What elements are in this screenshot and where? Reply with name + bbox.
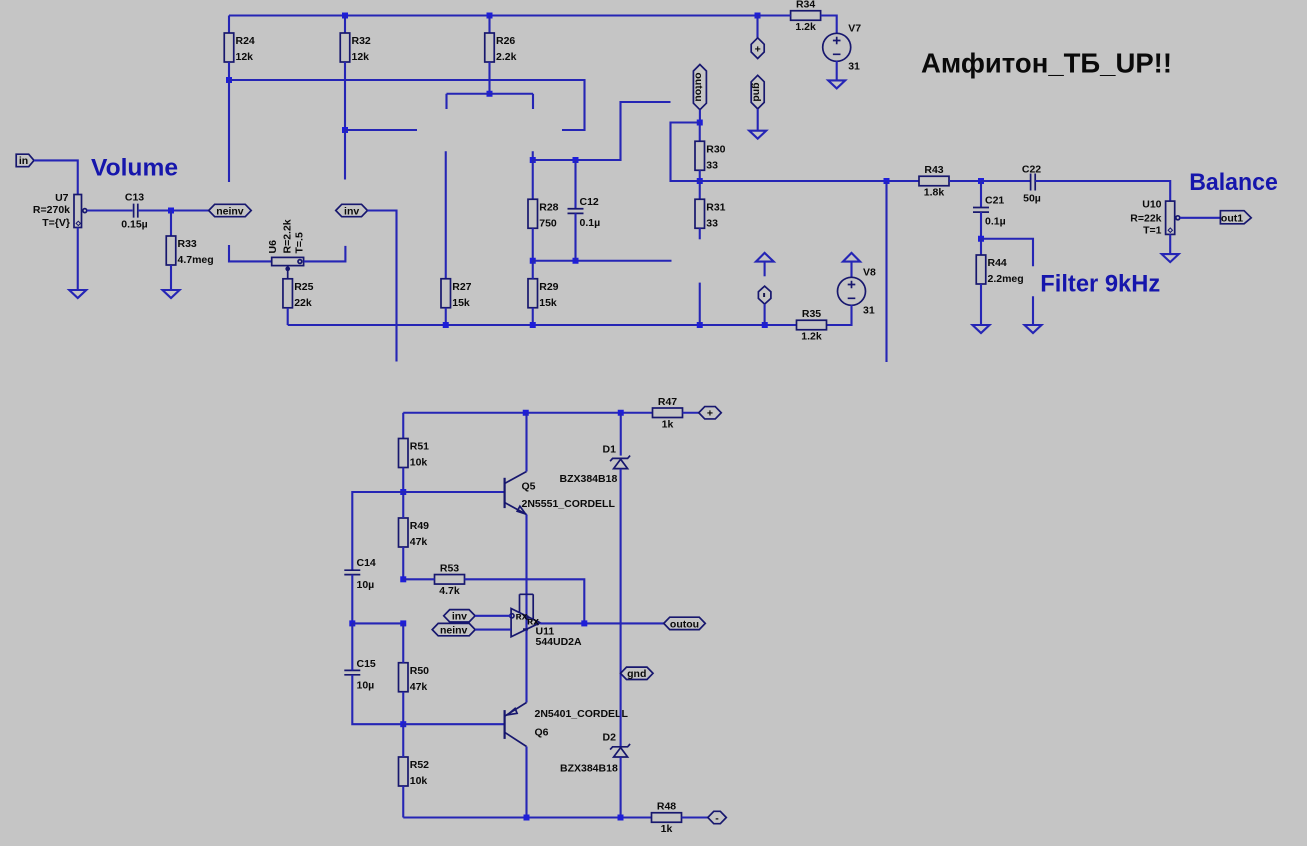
resistor R24: [224, 33, 234, 62]
svg-text:C12: C12: [580, 196, 599, 208]
resistor R32: [340, 33, 350, 62]
wire R32 node stub right: [345, 129, 417, 131]
junction top bus / R32: [342, 13, 348, 19]
junction top bus / R34: [755, 13, 761, 19]
capacitor C14: [344, 570, 360, 574]
svg-text:Filter 9kHz: Filter 9kHz: [1040, 271, 1160, 298]
resistor R51: [399, 439, 409, 468]
wire U6 left: [229, 245, 272, 261]
resistor R30: [695, 141, 705, 170]
ground under gnd flag: [749, 131, 766, 139]
svg-text:0.1µ: 0.1µ: [985, 216, 1006, 228]
wire U10 wiper to out1: [1180, 217, 1221, 219]
wire out bus: [671, 180, 920, 182]
svg-text:+: +: [755, 44, 761, 56]
junction Q6 collector / bus: [524, 815, 530, 821]
wire lower bottom bus: [403, 816, 651, 818]
wire R30 bypass: [671, 123, 700, 182]
svg-text:1.2k: 1.2k: [801, 331, 822, 343]
wire U10 bottom: [1169, 234, 1171, 254]
port out1: [1220, 211, 1251, 224]
wire base node to Q5: [403, 491, 503, 493]
svg-text:T=1: T=1: [1143, 225, 1162, 237]
wire R24 bottom to bus: [228, 62, 230, 80]
svg-text:R48: R48: [657, 801, 676, 813]
net flag - lower: [708, 811, 727, 823]
wire R24 collector stub: [228, 80, 230, 182]
wire bus to plus flag: [756, 16, 758, 38]
svg-text:U10: U10: [1142, 199, 1161, 211]
wire R49 bottom: [402, 547, 404, 579]
junction R28 top: [530, 157, 536, 163]
wire R53 left: [403, 578, 434, 580]
svg-text:Balance: Balance: [1189, 169, 1278, 196]
svg-text:15k: 15k: [452, 297, 470, 309]
wire in to U7: [34, 160, 78, 194]
wire R28 column stub: [532, 151, 534, 160]
wire V7 bottom: [836, 61, 838, 81]
svg-text:R52: R52: [410, 759, 429, 771]
wire bottom bus: [288, 324, 797, 326]
wire R26 top: [488, 16, 490, 34]
svg-text:2N5401_CORDELL: 2N5401_CORDELL: [535, 708, 629, 720]
net label inv lower: [444, 610, 475, 622]
wire U7 wiper to C13: [87, 209, 133, 211]
svg-text:Q5: Q5: [522, 481, 536, 493]
svg-text:22k: 22k: [294, 297, 312, 309]
svg-text:10µ: 10µ: [357, 680, 375, 692]
net flag arrow left: [756, 253, 774, 262]
svg-text:ʀx: ʀx: [516, 610, 528, 622]
resistor R26: [485, 33, 495, 62]
junction R30 bottom: [697, 178, 703, 184]
svg-text:1.2k: 1.2k: [795, 21, 816, 33]
resistor R48: [652, 813, 682, 823]
wire D2 bottom: [620, 757, 622, 817]
wire tap row: [352, 622, 403, 624]
junction neinv node: [168, 208, 174, 214]
svg-text:inv: inv: [344, 205, 359, 217]
svg-text:R34: R34: [796, 0, 815, 11]
wire R32 dangling: [344, 130, 346, 180]
wire C21 bottom: [980, 212, 982, 239]
wire R24 top: [228, 16, 230, 34]
svg-text:R32: R32: [352, 35, 371, 47]
capacitor C15: [344, 670, 360, 674]
potentiometer U10: [1166, 201, 1175, 234]
svg-text:R25: R25: [294, 281, 313, 293]
net flag + lower: [699, 407, 722, 419]
potentiometer U6: [272, 257, 304, 265]
wire Q5 collector: [525, 413, 527, 472]
svg-text:C21: C21: [985, 195, 1004, 207]
junction outou node: [697, 120, 703, 126]
junction Q6 base node: [400, 721, 406, 727]
wire R50 bottom: [402, 692, 404, 724]
svg-text:R27: R27: [452, 281, 471, 293]
resistor R52: [399, 757, 409, 786]
wire R48 to minus: [682, 816, 708, 818]
svg-text:4.7meg: 4.7meg: [178, 254, 214, 266]
wire C13 to node neinv: [138, 209, 209, 211]
wire R25 bottom: [287, 308, 289, 325]
svg-text:R=22k: R=22k: [1130, 213, 1161, 225]
svg-text:Q6: Q6: [535, 727, 549, 739]
transistor Q5: [504, 478, 506, 508]
svg-text:C13: C13: [125, 192, 144, 204]
resistor R27: [441, 279, 451, 308]
ground filter branch: [1025, 325, 1042, 333]
wire R27 bottom: [445, 308, 447, 325]
svg-text:31: 31: [863, 304, 875, 316]
svg-text:R=270k: R=270k: [33, 204, 70, 216]
wire C15 top: [351, 623, 353, 670]
wire filter branch lower: [1032, 296, 1034, 325]
junction tail / bus: [697, 322, 703, 328]
svg-text:2.2k: 2.2k: [496, 51, 517, 63]
wire opamp output: [540, 622, 664, 624]
svg-text:R43: R43: [924, 164, 943, 176]
junction R26 node: [487, 91, 493, 97]
svg-text:R50: R50: [410, 665, 429, 677]
wire staple left: [447, 93, 490, 95]
wire C21 top: [980, 181, 982, 208]
svg-text:10µ: 10µ: [357, 579, 375, 591]
junction top bus / R26: [487, 13, 493, 19]
junction R32 node: [342, 127, 348, 133]
svg-text:R35: R35: [802, 308, 821, 320]
wire neinv to opamp: [475, 629, 511, 631]
ground V7: [828, 80, 845, 88]
wire U7 bottom: [77, 228, 79, 291]
svg-text:R49: R49: [410, 520, 429, 532]
svg-text:outou: outou: [693, 73, 705, 102]
wire C12 bottom: [574, 213, 576, 260]
junction C12 bottom: [573, 258, 579, 264]
junction R29 / bus: [530, 322, 536, 328]
junction R53 node: [400, 576, 406, 582]
wire R33 top: [170, 211, 172, 237]
svg-text:-: -: [715, 812, 719, 824]
wire mid bus: [229, 80, 585, 130]
wire R49 top: [402, 492, 404, 518]
svg-text:750: 750: [539, 217, 557, 229]
capacitor C13: [134, 204, 138, 218]
svg-text:50µ: 50µ: [1023, 193, 1041, 205]
net label neinv lower: [432, 623, 475, 635]
op-amp U11: [511, 609, 540, 637]
wire R29 bottom: [532, 308, 534, 325]
resistor R31: [695, 199, 705, 228]
svg-text:out1: out1: [1221, 213, 1243, 225]
wire C15 bottom: [352, 675, 403, 724]
junction base node Q5: [400, 489, 406, 495]
svg-text:47k: 47k: [410, 536, 428, 548]
wire V8 bottom: [827, 305, 852, 325]
svg-text:D2: D2: [603, 732, 617, 744]
wire dangling below R43 node: [885, 181, 887, 362]
resistor R28: [528, 199, 538, 228]
resistor R25: [283, 279, 293, 308]
wire node row 260: [533, 260, 672, 262]
wire R33 bottom: [170, 265, 172, 290]
potentiometer U7: [74, 195, 82, 228]
svg-text:2.2meg: 2.2meg: [988, 273, 1024, 285]
ground U10: [1162, 254, 1179, 262]
net flag outou top: [693, 65, 706, 110]
wire U6 right: [304, 246, 346, 262]
svg-text:U6: U6: [267, 240, 279, 254]
svg-text:R51: R51: [410, 441, 429, 453]
resistor R47: [653, 408, 683, 418]
resistor R53: [435, 575, 465, 585]
svg-text:544UD2A: 544UD2A: [536, 636, 583, 648]
junction C12 top: [573, 157, 579, 163]
ground R33: [163, 290, 180, 298]
svg-text:neinv: neinv: [216, 205, 244, 217]
resistor R49: [399, 518, 409, 547]
wire outou to node: [699, 110, 701, 123]
diode D1: [610, 456, 630, 462]
wire R29 top: [532, 261, 534, 279]
resistor R50: [399, 663, 409, 692]
svg-text:1k: 1k: [661, 823, 673, 835]
wire R28 top: [532, 160, 534, 199]
wire R44 top: [980, 239, 982, 255]
svg-text:R28: R28: [539, 201, 558, 213]
wire lower top bus: [403, 412, 652, 414]
svg-text:2N5551_CORDELL: 2N5551_CORDELL: [522, 498, 616, 510]
wire staple right drop: [532, 94, 534, 109]
wire R44 bottom: [980, 284, 982, 325]
svg-text:inv: inv: [452, 611, 467, 623]
net label neinv: [209, 204, 252, 216]
port in: [16, 154, 34, 167]
junction tap / R50: [400, 620, 406, 626]
svg-text:1.8k: 1.8k: [924, 187, 945, 199]
svg-text:in: in: [19, 155, 28, 167]
junction C14/C15 tap: [349, 620, 355, 626]
wire C22 right: [1035, 181, 1170, 201]
svg-text:Амфитон_ТБ_UP!!: Амфитон_ТБ_UP!!: [921, 48, 1172, 79]
svg-text:4.7k: 4.7k: [439, 585, 460, 597]
svg-text:47k: 47k: [410, 681, 428, 693]
junction R24 / mid bus: [226, 77, 232, 83]
svg-text:T={V}: T={V}: [42, 217, 70, 229]
junction R43 node: [884, 178, 890, 184]
wire staple left drop: [445, 94, 447, 109]
svg-text:V8: V8: [863, 266, 876, 278]
wire C12 top: [574, 160, 576, 209]
svg-text:D1: D1: [603, 444, 617, 456]
svg-text:R44: R44: [988, 257, 1007, 269]
capacitor C21: [973, 208, 989, 213]
wire C14 bottom: [351, 575, 353, 624]
wire R31 top: [699, 181, 701, 199]
svg-text:12k: 12k: [352, 51, 370, 63]
svg-text:neinv: neinv: [440, 625, 468, 637]
transistor Q6: [504, 710, 506, 739]
net label inv: [336, 204, 368, 216]
svg-text:1k: 1k: [662, 418, 674, 430]
resistor R33: [166, 236, 176, 265]
wire node row 160: [533, 102, 671, 160]
wire R31 dangling: [699, 228, 701, 239]
svg-text:outou: outou: [670, 618, 699, 630]
wire dot flag to bus: [764, 304, 766, 325]
svg-text:R33: R33: [178, 238, 197, 250]
svg-text:U7: U7: [55, 192, 69, 204]
wire inv net: [368, 211, 397, 362]
wire R43 to C21 node: [949, 180, 981, 182]
capacitor C22: [1031, 174, 1036, 191]
net label outou lower: [664, 617, 706, 629]
diode D2: [610, 744, 630, 750]
wire R32 top: [344, 16, 346, 34]
svg-text:33: 33: [706, 159, 718, 171]
net flag dot: [758, 286, 771, 304]
svg-text:+: +: [707, 408, 713, 420]
ground U7: [69, 290, 86, 298]
wire R28 bottom: [532, 228, 534, 261]
svg-text:T=.5: T=.5: [294, 232, 306, 253]
wire D1 top: [620, 413, 622, 456]
net label gnd lower: [621, 667, 654, 679]
svg-text:BZX384B18: BZX384B18: [560, 763, 618, 775]
junction C21 bottom: [978, 236, 984, 242]
wire R34 to V7: [821, 16, 837, 34]
resistor R34: [791, 11, 821, 21]
svg-text:15k: 15k: [539, 297, 557, 309]
svg-text:R30: R30: [706, 143, 725, 155]
svg-text:R29: R29: [539, 281, 558, 293]
wire R30 bottom: [699, 170, 701, 181]
svg-text:0.1µ: 0.1µ: [580, 217, 601, 229]
svg-text:12k: 12k: [236, 51, 254, 63]
wire gnd flag to ground: [757, 109, 759, 131]
svg-text:R53: R53: [440, 562, 459, 574]
voltage source V8: [838, 277, 866, 305]
svg-text:gnd: gnd: [627, 668, 646, 680]
ground R44: [973, 325, 990, 333]
junction D2 / bus: [618, 815, 624, 821]
net flag +: [751, 38, 764, 59]
wire R27 column: [445, 151, 447, 279]
svg-text:R26: R26: [496, 35, 515, 47]
net flag arrow V8: [843, 253, 860, 262]
wire R51 bottom: [402, 468, 404, 493]
wire C22 left: [981, 180, 1031, 182]
svg-text:C15: C15: [357, 658, 376, 670]
capacitor C12: [568, 209, 584, 214]
resistor R43: [919, 176, 949, 186]
junction R27 / bus: [443, 322, 449, 328]
svg-text:V7: V7: [848, 22, 861, 34]
junction D1 top: [618, 410, 624, 416]
svg-text:Volume: Volume: [91, 155, 178, 182]
wire R50 top: [402, 623, 404, 662]
wire staple right: [490, 93, 534, 95]
junction output / R53: [581, 620, 587, 626]
wire R30 top: [699, 123, 701, 142]
wire filter branch: [981, 239, 1033, 267]
junction C21 top: [978, 178, 984, 184]
wire R52 bottom: [402, 786, 404, 818]
svg-text:C22: C22: [1022, 164, 1041, 176]
svg-text:33: 33: [706, 217, 718, 229]
wire R47 to plus: [683, 412, 699, 414]
resistor R29: [528, 279, 538, 308]
wire base node to C14: [352, 492, 403, 570]
wire Q5 emitter rail: [525, 515, 527, 703]
wire R53 right: [465, 579, 585, 623]
svg-text:R24: R24: [236, 35, 255, 47]
svg-text:0.15µ: 0.15µ: [121, 219, 148, 231]
junction flag / bus: [762, 322, 768, 328]
voltage source V7: [823, 33, 851, 61]
wire Q6 base: [403, 723, 503, 725]
net flag gnd top: [751, 75, 764, 109]
wire D1 to D2: [620, 469, 622, 746]
svg-text:R47: R47: [658, 396, 677, 408]
wire inv to opamp: [475, 615, 511, 617]
junction R28 bottom: [530, 258, 536, 264]
wire R51 top: [402, 413, 404, 439]
wire Q6 collector: [525, 747, 527, 818]
svg-text:10k: 10k: [410, 457, 428, 469]
svg-text:BZX384B18: BZX384B18: [560, 473, 618, 485]
wire R32 bottom: [344, 62, 346, 130]
svg-text:C14: C14: [357, 557, 376, 569]
wire R26 bottom: [488, 62, 490, 94]
wire R52 top: [402, 724, 404, 757]
wire tail stub to bus: [699, 283, 701, 325]
resistor R35: [797, 320, 827, 330]
resistor R44: [976, 255, 986, 284]
svg-text:R=2.2k: R=2.2k: [282, 219, 294, 253]
svg-text:31: 31: [848, 60, 860, 72]
wire R34 left: [758, 14, 791, 16]
junction Q5 collector: [523, 410, 529, 416]
svg-text:gnd: gnd: [751, 82, 763, 101]
wire top bus: [229, 14, 758, 16]
svg-text:10k: 10k: [410, 775, 428, 787]
svg-text:R31: R31: [706, 201, 725, 213]
